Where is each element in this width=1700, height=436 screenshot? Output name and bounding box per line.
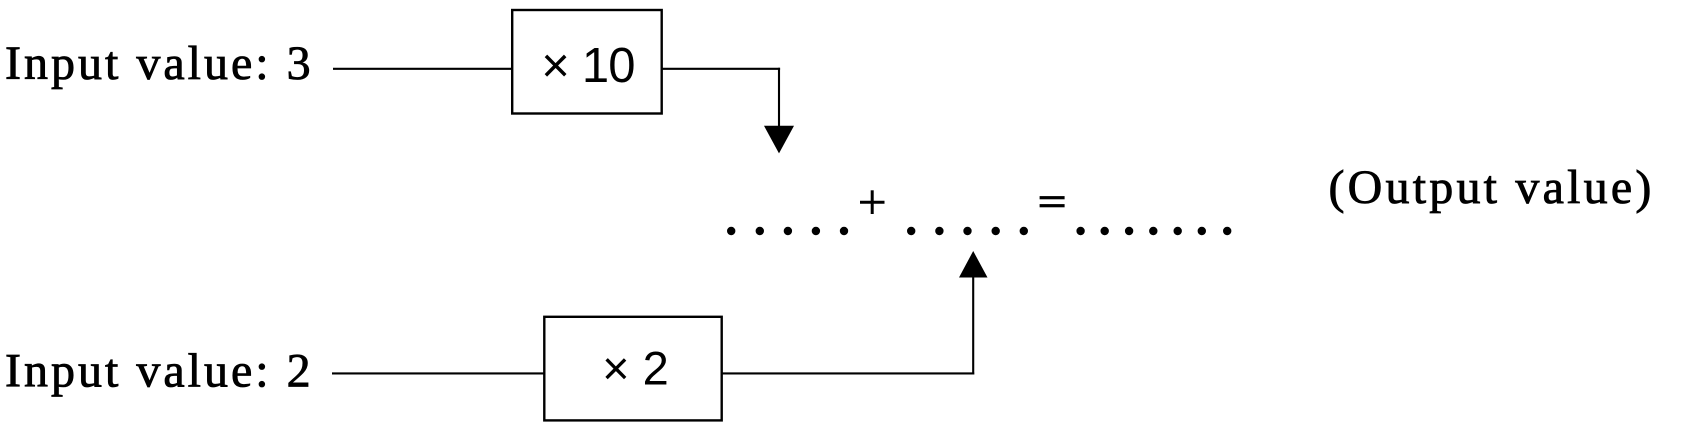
svg-text:× 2: × 2 — [602, 341, 669, 394]
svg-text:Input value: 3: Input value: 3 — [5, 37, 314, 90]
svg-text:× 10: × 10 — [541, 39, 635, 93]
svg-text:(Output value): (Output value) — [1329, 161, 1655, 214]
svg-text:Input value: 2: Input value: 2 — [5, 345, 314, 398]
